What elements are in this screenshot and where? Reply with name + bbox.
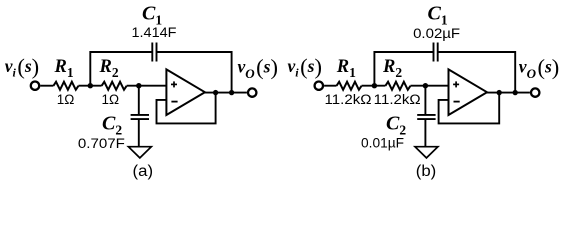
op-amp U1 (a) — [166, 69, 205, 115]
capacitor C1 (a) — [152, 43, 156, 62]
svg-text:vi(s): vi(s) — [5, 54, 39, 79]
ground (b) — [415, 147, 438, 158]
wire C2 lower (b) — [424, 120, 426, 147]
resistor R2 (b) — [385, 82, 410, 90]
svg-text:1Ω: 1Ω — [57, 92, 75, 107]
svg-text:(b): (b) — [416, 163, 437, 180]
svg-text:11.2kΩ: 11.2kΩ — [325, 92, 372, 107]
resistor R1 (a) — [53, 82, 78, 90]
output terminal (a) — [248, 88, 256, 96]
svg-text:0.707F: 0.707F — [78, 136, 125, 151]
junction node C2 (a) — [136, 83, 141, 88]
svg-text:0.02µF: 0.02µF — [413, 26, 460, 41]
junction feedback node (b) — [497, 90, 502, 95]
junction C1 output node (b) — [513, 90, 518, 95]
input terminal (a) — [31, 82, 39, 90]
output terminal (b) — [531, 88, 539, 96]
wire C2 lower (a) — [138, 120, 140, 147]
wire R2 to op-amp (a) — [127, 85, 167, 87]
ground (a) — [128, 147, 151, 158]
wire feedback minus loop (b) — [439, 93, 500, 124]
input terminal (b) — [315, 82, 323, 90]
resistor R2 (a) — [102, 82, 127, 90]
wire input stub (b) — [324, 85, 336, 87]
wire C1 to output riser (b) — [438, 52, 516, 93]
wire riser left to C1 (a) — [90, 52, 152, 86]
junction feedback node (a) — [213, 90, 218, 95]
wire C1 to output riser (a) — [157, 52, 232, 93]
wire R1 to R2 (b) — [362, 85, 386, 87]
wire R1 to R2 (a) — [78, 85, 101, 87]
wire op-amp output (b) — [487, 92, 530, 94]
wire input stub (a) — [40, 85, 53, 87]
junction node C2 (b) — [423, 83, 428, 88]
wire op-amp output (a) — [204, 92, 247, 94]
svg-text:1Ω: 1Ω — [101, 92, 119, 107]
svg-text:vi(s): vi(s) — [288, 54, 322, 79]
wire riser left to C1 (b) — [374, 52, 433, 86]
junction node after R1 (b) — [372, 83, 377, 88]
wire R2 to op-amp (b) — [410, 85, 448, 87]
svg-text:11.2kΩ: 11.2kΩ — [374, 92, 421, 107]
wire C2 upper (a) — [138, 86, 140, 115]
junction C1 output node (a) — [229, 90, 234, 95]
wire C2 upper (b) — [424, 86, 426, 115]
wire feedback minus loop (a) — [157, 93, 216, 124]
svg-text:1.414F: 1.414F — [132, 25, 177, 40]
op-amp U1 (b) — [449, 69, 488, 115]
svg-text:0.01µF: 0.01µF — [361, 135, 404, 150]
capacitor C2 (a) — [131, 115, 149, 119]
capacitor C2 (b) — [417, 115, 435, 119]
svg-text:(a): (a) — [133, 163, 154, 180]
capacitor C1 (b) — [434, 43, 438, 62]
resistor R1 (b) — [337, 82, 362, 90]
junction node after R1 (a) — [88, 83, 93, 88]
